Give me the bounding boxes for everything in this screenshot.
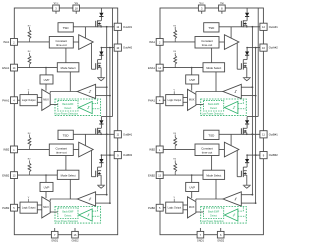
net OUTB1 [219, 133, 260, 135]
diode D11 [99, 8, 103, 21]
wire [37, 209, 42, 211]
green block BEMF2 [204, 208, 224, 219]
wire [73, 149, 78, 151]
svg-text:MUX: MUX [189, 206, 195, 209]
diode D21 [245, 117, 249, 129]
wire [163, 67, 203, 69]
green wire [238, 207, 243, 212]
svg-text:UVP: UVP [189, 186, 195, 190]
pin 2 IN1 [149, 39, 163, 46]
resistor R21 [173, 133, 176, 150]
wire [18, 174, 58, 176]
power MOSFET M12 [241, 63, 246, 78]
wire [191, 68, 193, 75]
block UVP 2 [40, 182, 53, 191]
green comparator U2G [225, 209, 238, 221]
reference label V [173, 90, 175, 95]
wire [84, 27, 86, 38]
svg-text:Detect: Detect [64, 107, 71, 110]
pin 11 OUTB1 [114, 131, 132, 138]
svg-text:time-out: time-out [56, 43, 67, 47]
mux MUX1 [188, 89, 196, 110]
wire [183, 209, 188, 211]
green wire [92, 108, 100, 110]
comparator U2C [223, 192, 241, 206]
svg-text:Mode Select: Mode Select [61, 173, 76, 177]
block TSD 1 [58, 23, 73, 32]
pin 18 VM (top) [73, 1, 80, 11]
resistor R11 [28, 25, 31, 42]
pin 7 GND1 (bottom) [51, 228, 59, 242]
wire [84, 134, 86, 145]
diode D22 [243, 155, 249, 170]
svg-text:ENA1: ENA1 [2, 66, 10, 70]
ground [243, 78, 251, 81]
wire [241, 194, 252, 196]
block UVP 1 [40, 75, 53, 84]
svg-text:PHB2: PHB2 [148, 206, 156, 210]
pin 1 IN2 [3, 146, 17, 153]
junction [109, 95, 111, 97]
block Deadtime 2 [49, 144, 73, 156]
pin 1 IN2 [149, 146, 163, 153]
wire [221, 11, 223, 14]
rail wire [247, 8, 258, 117]
pin 6 GND2 (bottom) [217, 228, 225, 242]
svg-text:MUX: MUX [43, 99, 49, 102]
wire [163, 207, 166, 209]
diode D21 [99, 117, 103, 129]
svg-text:Back-EMF: Back-EMF [208, 103, 220, 106]
wire [18, 41, 50, 43]
junction [246, 26, 248, 28]
svg-text:ENB2: ENB2 [148, 173, 156, 177]
wire [37, 204, 42, 206]
svg-text:time-out: time-out [56, 151, 67, 155]
block Mode Select 1 [203, 63, 225, 72]
rail wire [106, 27, 108, 195]
power MOSFET M21 [241, 128, 246, 135]
junction [252, 86, 254, 88]
block TSD 2 [58, 130, 73, 139]
net OUTB2 [247, 154, 260, 156]
svg-text:UVP: UVP [189, 78, 195, 82]
green comparator U1G [225, 101, 238, 113]
svg-text:Logic Output: Logic Output [22, 207, 36, 210]
wire [75, 11, 77, 14]
block UVP 2 [186, 182, 199, 191]
junction [246, 154, 248, 156]
wire [55, 11, 57, 14]
green label Low Power Detection [56, 220, 79, 223]
junction [45, 174, 47, 176]
junction [191, 67, 193, 69]
svg-text:GND1: GND1 [51, 239, 59, 242]
block Mode Select 2 [57, 170, 79, 179]
green dashed box LPD1 [55, 99, 101, 116]
svg-text:GND1: GND1 [197, 239, 205, 242]
mux MUX1 [42, 89, 50, 110]
green comparator U1G [79, 101, 92, 113]
svg-text:INA1: INA1 [149, 40, 155, 44]
block Logic Output 1 [166, 95, 183, 106]
green label Low Power Detection [56, 113, 79, 116]
wire [241, 202, 255, 204]
green label Low Power Detection [202, 220, 225, 223]
green wire [92, 215, 100, 217]
wire [18, 148, 50, 150]
wire [230, 27, 232, 38]
green block BEMF1 [58, 100, 78, 111]
reference label V [28, 197, 30, 202]
resistor R22 [173, 159, 176, 175]
driver amp U2D [79, 142, 94, 157]
wire [196, 104, 204, 106]
svg-text:Back-EMF: Back-EMF [208, 211, 220, 214]
junction [101, 154, 103, 156]
wire [219, 41, 224, 43]
svg-text:OutB#2: OutB#2 [269, 153, 279, 157]
svg-text:time-out: time-out [202, 151, 213, 155]
green wire [77, 214, 80, 216]
wire [18, 67, 58, 69]
svg-text:Detect: Detect [64, 214, 71, 217]
svg-text:PHA1: PHA1 [148, 99, 156, 103]
svg-text:PHB2: PHB2 [2, 206, 10, 210]
wire [96, 95, 110, 97]
wire [183, 204, 188, 206]
wire [215, 72, 217, 92]
green wire [238, 215, 246, 217]
junction [106, 194, 108, 196]
svg-text:Detect: Detect [210, 107, 217, 110]
driver amp U2D [224, 142, 239, 157]
wire [230, 134, 232, 145]
resistor R12 [173, 51, 176, 67]
pin 10 OUTA2 [260, 44, 278, 51]
wire [163, 174, 203, 176]
svg-text:MUX: MUX [43, 206, 49, 209]
green wire [92, 99, 97, 104]
wire [18, 207, 21, 209]
wire [18, 99, 21, 101]
wire [91, 150, 93, 176]
resistor R21 [28, 133, 31, 150]
green block BEMF1 [204, 100, 224, 111]
wire [183, 101, 188, 103]
block Logic Output 1 [20, 95, 37, 106]
pin 2 IN1 [3, 39, 17, 46]
wire [50, 211, 58, 213]
junction [255, 202, 257, 204]
pin 5 PH2 [2, 204, 17, 211]
junction [109, 202, 111, 204]
wire [65, 156, 67, 171]
pin 14 EN1 [148, 64, 163, 71]
junction [252, 133, 254, 135]
junction [45, 67, 47, 69]
svg-text:UVP: UVP [44, 78, 50, 82]
block Logic Output 2 [166, 202, 183, 213]
green block BEMF2 [58, 208, 78, 219]
resistor R22 [28, 159, 31, 175]
svg-text:OutA#1: OutA#1 [123, 25, 133, 29]
wire [45, 192, 47, 199]
junction [246, 134, 248, 136]
svg-text:PHA1: PHA1 [2, 99, 10, 103]
junction [255, 154, 257, 156]
wire [215, 179, 217, 199]
svg-text:OutB#2: OutB#2 [123, 153, 133, 157]
wire [45, 84, 47, 91]
wire [92, 68, 96, 70]
diode D12 [98, 48, 104, 63]
net OUTA2 [101, 47, 114, 49]
wire [50, 104, 58, 106]
mux MUX2 [42, 197, 50, 218]
svg-text:Logic Output: Logic Output [168, 99, 182, 102]
pin 14 EN1 [2, 64, 17, 71]
wire [219, 149, 224, 151]
pin 11 OUTB1 [260, 131, 278, 138]
junction [252, 26, 254, 28]
wire [237, 68, 241, 70]
svg-text:TSD: TSD [208, 26, 215, 30]
wire [96, 202, 110, 204]
junction [106, 133, 108, 135]
wire [73, 41, 78, 43]
junction [252, 194, 254, 196]
junction [109, 154, 111, 156]
green wire [223, 107, 226, 109]
net OUTB1 [73, 133, 114, 135]
wire [92, 176, 96, 178]
wire [45, 175, 47, 182]
wire [211, 156, 213, 171]
mux MUX2 [188, 197, 196, 218]
block Mode Select 1 [57, 63, 79, 72]
svg-text:INB2: INB2 [3, 148, 9, 152]
junction [106, 86, 108, 88]
junction [255, 154, 257, 156]
pin 13 EN2 [2, 172, 17, 179]
wire [236, 43, 238, 69]
green wire [238, 108, 246, 110]
svg-text:Detect: Detect [210, 214, 217, 217]
pin 12 OUTA1 [260, 23, 278, 30]
svg-text:Logic Output: Logic Output [168, 207, 182, 210]
wire [241, 95, 255, 97]
svg-text:Logic Output: Logic Output [22, 99, 36, 102]
ground [97, 78, 105, 81]
driver amp U1D [79, 35, 94, 50]
rail wire [109, 48, 111, 204]
IC outline U2 [160, 8, 263, 235]
svg-text:Mode Select: Mode Select [206, 66, 221, 70]
wire [37, 101, 42, 103]
wire [163, 148, 195, 150]
wire [183, 97, 188, 99]
wire [191, 84, 193, 91]
svg-text:Mode Select: Mode Select [61, 66, 76, 70]
wire [196, 92, 223, 94]
diode D11 [245, 8, 249, 21]
green wire [92, 207, 97, 212]
svg-text:INA1: INA1 [3, 40, 9, 44]
rail wire [255, 48, 257, 204]
power MOSFET M22 [96, 170, 101, 185]
wire [163, 41, 195, 43]
comparator U1C [77, 84, 95, 98]
wire [241, 86, 252, 88]
pin 13 EN2 [148, 172, 163, 179]
svg-text:TSD: TSD [208, 133, 215, 137]
driver amp U1D [224, 35, 239, 50]
wire [196, 211, 204, 213]
wire [50, 92, 77, 94]
svg-text:Low Power Detection: Low Power Detection [56, 113, 79, 116]
svg-text:TSD: TSD [63, 26, 70, 30]
block Logic Output 2 [20, 202, 37, 213]
svg-text:Mode Select: Mode Select [206, 173, 221, 177]
svg-text:Low Power Detection: Low Power Detection [202, 113, 225, 116]
wire [96, 194, 107, 196]
resistor R12 [28, 51, 31, 67]
IC outline U1 [14, 8, 117, 235]
pin 12 OUTA1 [114, 23, 132, 30]
pin 4 PH1 [148, 97, 163, 104]
net OUTA1 [73, 26, 114, 28]
junction [252, 133, 254, 135]
pin 7 GND1 (bottom) [197, 228, 205, 242]
power MOSFET M22 [241, 170, 246, 185]
net OUTA1 [219, 26, 260, 28]
junction [100, 26, 102, 28]
wire [196, 199, 223, 201]
block Deadtime 1 [195, 37, 219, 49]
pin 9 OUTB2 [114, 152, 132, 159]
svg-text:Low Power Detection: Low Power Detection [202, 220, 225, 223]
power MOSFET M11 [96, 20, 101, 27]
junction [109, 154, 111, 156]
wire [91, 43, 93, 69]
green dashed box LPD2 [201, 207, 247, 224]
diode D22 [98, 155, 104, 170]
net OUTA2 [247, 47, 260, 49]
wire [163, 99, 166, 101]
wire [191, 192, 193, 199]
svg-text:OutB#1: OutB#1 [269, 132, 279, 136]
green dashed box LPD2 [55, 207, 101, 224]
comparator U1C [223, 84, 241, 98]
block Deadtime 1 [49, 37, 73, 49]
green dashed box LPD1 [201, 99, 247, 116]
pin 3 VCC (top) [53, 1, 60, 11]
svg-text:time-out: time-out [202, 43, 213, 47]
reference label V [173, 197, 175, 202]
power MOSFET M12 [96, 63, 101, 78]
junction [106, 26, 108, 28]
svg-text:TSD: TSD [63, 133, 70, 137]
svg-text:Low Power Detection: Low Power Detection [56, 220, 79, 223]
resistor R11 [173, 25, 176, 42]
svg-text:ENA1: ENA1 [148, 66, 156, 70]
svg-text:OutA#1: OutA#1 [269, 25, 279, 29]
green comparator U2G [79, 209, 92, 221]
ground [243, 185, 251, 188]
power MOSFET M21 [96, 128, 101, 135]
svg-text:INB2: INB2 [149, 148, 155, 152]
svg-text:ENB2: ENB2 [2, 173, 10, 177]
junction [255, 95, 257, 97]
junction [191, 174, 193, 176]
wire [37, 97, 42, 99]
ground [97, 185, 105, 188]
wire [50, 199, 77, 201]
svg-text:UVP: UVP [44, 186, 50, 190]
pin 3 VCC (top) [198, 1, 205, 11]
junction [100, 134, 102, 136]
rail wire [101, 8, 112, 117]
svg-text:OutA#2: OutA#2 [269, 46, 279, 50]
wire [45, 68, 47, 75]
junction [101, 47, 103, 49]
svg-text:OutA#2: OutA#2 [123, 46, 133, 50]
pin 8 VM (top) [219, 1, 226, 11]
green wire [223, 214, 226, 216]
diode D12 [243, 48, 249, 63]
power MOSFET M11 [241, 20, 246, 27]
net OUTB2 [101, 154, 114, 156]
green wire [238, 99, 243, 104]
wire [237, 176, 241, 178]
svg-text:GND2: GND2 [72, 239, 80, 242]
block Deadtime 2 [195, 144, 219, 156]
block UVP 1 [186, 75, 199, 84]
junction [109, 47, 111, 49]
block Mode Select 2 [203, 170, 225, 179]
svg-text:OutB#1: OutB#1 [123, 132, 133, 136]
svg-text:GND2: GND2 [217, 239, 225, 242]
pin 16 GND2 (bottom) [72, 228, 80, 242]
wire [69, 179, 71, 199]
svg-text:Back-EMF: Back-EMF [62, 103, 74, 106]
wire [191, 175, 193, 182]
rail wire [251, 27, 253, 195]
pin 4 PH1 [2, 97, 17, 104]
svg-text:MUX: MUX [189, 99, 195, 102]
wire [201, 11, 203, 14]
junction [255, 47, 257, 49]
svg-text:Back-EMF: Back-EMF [62, 211, 74, 214]
comparator U2C [77, 192, 95, 206]
pin 5 PH2 [148, 204, 163, 211]
green label Low Power Detection [202, 113, 225, 116]
junction [246, 47, 248, 49]
block TSD 1 [204, 23, 219, 32]
pin 9 OUTB2 [260, 152, 278, 159]
wire [236, 150, 238, 176]
reference label V [28, 90, 30, 95]
pin 10 OUTA2 [114, 44, 132, 51]
wire [69, 72, 71, 92]
green wire [77, 107, 80, 109]
block TSD 2 [204, 130, 219, 139]
wire [211, 48, 213, 63]
wire [96, 86, 107, 88]
junction [106, 133, 108, 135]
wire [65, 48, 67, 63]
